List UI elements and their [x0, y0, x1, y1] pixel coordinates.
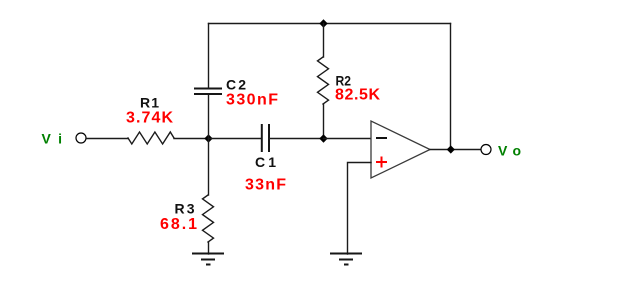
wire R2 to node C	[323, 104, 325, 139]
wire node B down to R2	[323, 24, 325, 58]
svg-text:V i: V i	[42, 131, 63, 147]
svg-text:V o: V o	[498, 143, 521, 159]
feedback wire from top rail	[450, 24, 452, 150]
wire R3 to ground	[208, 242, 210, 254]
wire node A to C1	[209, 138, 262, 140]
svg-text:C1: C1	[255, 154, 276, 170]
svg-text:82.5K: 82.5K	[335, 87, 380, 104]
wire node C to op-amp inverting input	[324, 138, 372, 140]
top rail wire	[209, 23, 451, 25]
wire node A up to C2	[208, 94, 210, 139]
wire op-amp output	[430, 149, 481, 151]
svg-text:3.74K: 3.74K	[126, 110, 173, 127]
svg-text:330nF: 330nF	[226, 92, 278, 109]
wire node A down to R3	[208, 139, 210, 196]
svg-text:R1: R1	[140, 95, 159, 111]
wire C2 to top rail	[208, 24, 210, 89]
svg-text:68.1: 68.1	[160, 216, 197, 233]
op-amp minus symbol	[377, 137, 386, 139]
op-amp U1	[371, 121, 430, 178]
output terminal Vo	[481, 145, 491, 155]
wire op-amp noninverting input	[348, 163, 372, 255]
resistor R3	[203, 195, 214, 242]
capacitor C1	[262, 125, 269, 151]
ground G1	[193, 254, 223, 265]
op-amp plus symbol	[377, 158, 386, 167]
node A junction	[204, 134, 212, 142]
svg-text:C2: C2	[226, 77, 246, 93]
ground G2	[331, 254, 361, 265]
wire Vi terminal to R1	[87, 138, 129, 140]
node B top junction	[319, 19, 327, 27]
node C junction	[319, 134, 327, 142]
wire R1 to node A	[174, 138, 209, 140]
resistor R1	[128, 132, 174, 144]
svg-text:33nF: 33nF	[245, 177, 286, 194]
input terminal Vi	[76, 133, 86, 143]
svg-text:R3: R3	[175, 201, 195, 217]
wire C1 to node C	[269, 138, 324, 140]
node D output junction	[447, 145, 455, 153]
capacitor C2	[195, 89, 221, 95]
resistor R2	[318, 57, 329, 104]
